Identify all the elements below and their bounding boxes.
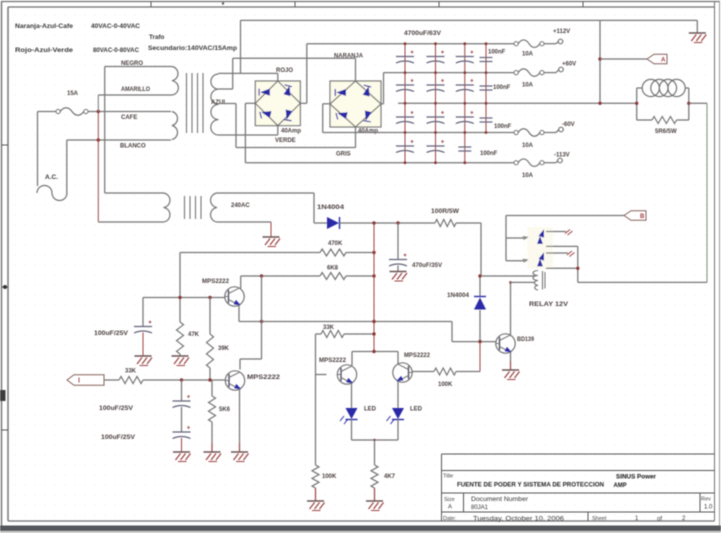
node center rail junction [598, 102, 601, 105]
svg-text:100K: 100K [322, 474, 337, 480]
svg-text:Document Number: Document Number [471, 497, 528, 503]
terminal -113V [558, 158, 563, 163]
node junction CAFE [97, 110, 100, 113]
capacitor 4700uF/63V row2 col1 [396, 84, 414, 86]
bridge rectifier BR1 40Amp [255, 81, 300, 126]
svg-text:1N4004: 1N4004 [317, 205, 345, 211]
svg-text:A: A [448, 505, 452, 511]
wire AZUL tap to GRIS line [219, 103, 237, 105]
scan smudge left edge [0, 390, 6, 401]
wire fuse to terminal -113V [544, 162, 556, 164]
wire NARANJA tap to bridge BR2 top [219, 88, 233, 90]
capacitor 4700uF/63V row3 col3 [456, 116, 474, 118]
capacitor 4700uF/63V row1 col1 [396, 56, 414, 58]
svg-text:10A: 10A [522, 143, 534, 149]
transformer T1 secondary winding [211, 74, 219, 135]
svg-text:100nF: 100nF [488, 50, 506, 56]
capacitor 4700uF/63V row1 col2 [427, 56, 445, 58]
svg-text:10A: 10A [522, 52, 534, 58]
svg-text:B: B [640, 214, 645, 220]
ground 100K [307, 500, 324, 502]
svg-text:100uF/25V: 100uF/25V [101, 435, 135, 441]
capacitor bank column wires [404, 44, 406, 163]
ground top right [696, 20, 698, 33]
svg-text:6K8: 6K8 [327, 266, 339, 272]
svg-text:MPS2222: MPS2222 [247, 375, 281, 381]
svg-text:Naranja-Azul-Cafe: Naranja-Azul-Cafe [15, 23, 74, 30]
svg-text:100uF/25V: 100uF/25V [99, 406, 133, 412]
svg-text:100uF/25V: 100uF/25V [94, 331, 128, 337]
ground caps [173, 451, 190, 453]
capacitor 100nF row3 [480, 117, 493, 119]
wire D2 cathode rail [340, 222, 436, 224]
wire 100R down to relay node [480, 223, 482, 276]
svg-text:AMP: AMP [614, 483, 627, 489]
svg-text:100nF: 100nF [494, 124, 512, 130]
wire 33K left to Q2 base [315, 334, 317, 375]
wire T2 sec bottom to ground [217, 221, 271, 223]
capacitor C5 470uF/35V [397, 223, 399, 259]
wire BR1 + output to +112V rail [300, 102, 307, 104]
svg-text:10A: 10A [522, 173, 534, 179]
wire input rail to Q5 base [143, 379, 225, 381]
terminal +60V [559, 67, 564, 72]
capacitor 4700uF/63V row3 col1 [396, 116, 414, 118]
fuse F3 10A [514, 71, 518, 75]
svg-text:LED: LED [364, 407, 377, 413]
svg-text:RELAY 12V: RELAY 12V [529, 301, 569, 308]
node A junction [598, 57, 601, 60]
svg-text:Secundario:140VAC/15Amp: Secundario:140VAC/15Amp [148, 45, 237, 52]
wire BR2 + output to +60V rail [381, 103, 384, 105]
ground T2 [263, 236, 280, 238]
wire top bus to ground [241, 19, 698, 21]
svg-text:LED: LED [410, 407, 423, 413]
svg-text:80JA1: 80JA1 [471, 505, 489, 511]
svg-text:40Amp: 40Amp [281, 129, 301, 135]
svg-text:33K: 33K [125, 369, 137, 375]
transformer T1 core [186, 73, 188, 133]
svg-text:Sheet: Sheet [592, 516, 607, 522]
wire LED bottom rail [352, 439, 399, 441]
svg-text:40Amp: 40Amp [358, 129, 378, 135]
wire relay contacts to output [577, 246, 579, 282]
bottom page edge band [0, 526, 721, 532]
svg-text:Date:: Date: [443, 516, 457, 522]
svg-text:80VAC-0-80VAC: 80VAC-0-80VAC [93, 47, 139, 54]
svg-text:100K: 100K [438, 382, 453, 388]
wire AC hot to fuse [37, 112, 39, 187]
wire NEGRO rail down to T2 [104, 67, 106, 194]
wire 470K node down to Q1 base [179, 253, 181, 323]
frame tick marks top [150, 2, 152, 8]
capacitor 4700uF/63V row2 col3 [456, 84, 474, 86]
node junction BLANCO [97, 138, 100, 141]
transformer T1 primary winding 1 (NEGRO/AMARILLO) [105, 66, 172, 68]
svg-text:100nF: 100nF [480, 151, 498, 157]
svg-text:of: of [657, 516, 662, 522]
svg-text:+112V: +112V [553, 29, 570, 35]
svg-text:470K: 470K [328, 241, 343, 247]
wire coil lead 2 [511, 281, 536, 283]
ground 5K6 [204, 451, 221, 453]
svg-text:4K7: 4K7 [384, 474, 396, 480]
wire Q1 base rail [143, 297, 225, 299]
relay K1 coil [533, 271, 538, 291]
capacitor 4700uF/63V row4 col2 [427, 145, 445, 147]
transformer T2 secondary 240AC [211, 193, 217, 222]
ground Q5 [231, 451, 248, 453]
wire L//R to right drop [689, 102, 707, 104]
wire Q1 collector to 6K8 rail [240, 276, 242, 289]
svg-text:-60V: -60V [562, 122, 575, 128]
cap bank junction dots [404, 42, 407, 45]
svg-text:A: A [661, 58, 666, 64]
svg-text:10A: 10A [522, 83, 534, 89]
svg-text:ROJO: ROJO [276, 68, 293, 74]
ground 47K [172, 355, 189, 357]
svg-text:MPS2222: MPS2222 [404, 353, 431, 359]
wire LED collector rail [351, 352, 353, 366]
capacitor 4700uF/63V row2 col2 [427, 84, 445, 86]
wire Q4 emitter to ground [510, 353, 512, 362]
wire fuse to terminal +60V [544, 72, 556, 74]
fuse F4 10A [514, 130, 518, 134]
svg-text:BLANCO: BLANCO [120, 144, 146, 150]
svg-text:Trafo: Trafo [149, 34, 165, 41]
wire bus down right side [599, 20, 601, 103]
svg-text:VERDE: VERDE [275, 138, 296, 144]
title block [442, 453, 715, 455]
ground C5 [390, 271, 407, 273]
svg-text:5R6/5W: 5R6/5W [655, 129, 677, 135]
wire vertical AMARILLO-BLANCO link [97, 95, 99, 112]
wire BR1 - output to -112V rail [245, 102, 255, 104]
svg-text:AMARILLO: AMARILLO [121, 87, 150, 93]
capacitor 100nF row2 [480, 85, 493, 87]
wire AC neutral to BLANCO [66, 140, 68, 194]
wire coil lead 1 [481, 275, 535, 277]
wire center 0V rail [398, 102, 637, 104]
wire ROJO tap to bridge BR1 top [219, 72, 278, 74]
connector tag B [624, 211, 646, 221]
transformer T2 core [184, 196, 186, 219]
svg-text:Title: Title [443, 474, 453, 480]
bridge rectifier BR2 40Amp [330, 81, 381, 127]
svg-text:+60V: +60V [562, 62, 576, 68]
svg-text:240AC: 240AC [231, 203, 250, 209]
wire rail corner to BD139 base [451, 322, 453, 342]
svg-text:15A: 15A [67, 91, 79, 97]
wire +60V rail (raw) [384, 72, 515, 74]
svg-text:Rev: Rev [701, 497, 711, 503]
frame tick marks left [2, 144, 9, 146]
svg-text:1.0: 1.0 [704, 505, 713, 511]
wire fuse to terminal -60V [544, 132, 556, 134]
wire Q4 collector to relay coil [510, 282, 512, 334]
ground 4K7 [366, 500, 383, 502]
svg-text:47K: 47K [188, 332, 200, 338]
resistor R 5R6/5W [652, 117, 677, 124]
wire VERDE tap to bridge BR1 bottom [219, 134, 278, 136]
svg-text:NEGRO: NEGRO [121, 61, 143, 67]
svg-text:5K6: 5K6 [219, 407, 231, 413]
svg-text:NARANJA: NARANJA [334, 54, 364, 60]
sheet inner frame [8, 6, 715, 8]
svg-text:FUENTE DE PODER Y SISTEMA DE P: FUENTE DE PODER Y SISTEMA DE PROTECCION [457, 482, 604, 489]
wire GRIS line to bridge BR2 bottom [236, 147, 356, 149]
svg-text:-113V: -113V [554, 153, 570, 159]
svg-text:CAFE: CAFE [121, 115, 137, 121]
wire +112V rail (raw) [307, 43, 514, 45]
svg-text:39K: 39K [218, 346, 230, 352]
svg-text:Tuesday, October 10, 2006: Tuesday, October 10, 2006 [473, 516, 565, 522]
svg-text:100R/5W: 100R/5W [431, 209, 459, 215]
svg-text:GRIS: GRIS [336, 152, 351, 158]
fuse F2 10A [514, 42, 518, 46]
inductor L1 [642, 79, 659, 96]
capacitor 4700uF/63V row4 col1 [396, 145, 414, 147]
connector tag input [67, 375, 104, 386]
svg-text:MPS2222: MPS2222 [319, 358, 347, 364]
capacitor 100nF row4 [458, 146, 471, 148]
wire T2 sec top to D2 [217, 192, 314, 194]
wire Q5 emitter to ground [239, 390, 241, 444]
svg-text:40VAC-0-40VAC: 40VAC-0-40VAC [91, 23, 140, 30]
transformer T2 primary [105, 192, 164, 194]
capacitor 4700uF/63V row3 col2 [427, 116, 445, 118]
svg-text:Size: Size [444, 497, 455, 503]
svg-text:A.C.: A.C. [45, 174, 58, 181]
wire to A tag [600, 58, 647, 60]
svg-text:SINUS Power: SINUS Power [616, 475, 657, 481]
svg-text:BD139: BD139 [517, 337, 535, 343]
ground Q4 [502, 369, 519, 371]
terminal +112V [558, 39, 563, 44]
svg-text:MPS2222: MPS2222 [202, 279, 230, 285]
svg-text:470uF/35V: 470uF/35V [412, 263, 442, 269]
wire fuse to terminal +112V [544, 43, 556, 45]
wire center vertical node [373, 223, 375, 352]
sheet outer border [1, 1, 720, 3]
transformer T1 primary winding 2 (CAFE/BLANCO) [172, 112, 178, 140]
ground C base [135, 355, 152, 357]
relay K1 contacts [527, 227, 553, 269]
fuse F5 10A [514, 161, 518, 165]
wire Q1 emitter to protection rail [238, 306, 240, 322]
terminal -60V [559, 127, 564, 132]
wire -60V rail (raw) [323, 132, 514, 134]
wire -112V rail (raw) [245, 162, 514, 164]
svg-text:1N4004: 1N4004 [447, 293, 470, 299]
svg-text:100nF: 100nF [493, 85, 511, 91]
capacitor 100nF row1 [480, 57, 493, 59]
svg-text:Rojo-Azul-Verde: Rojo-Azul-Verde [15, 47, 74, 54]
wire 6K8 node down to Q5 collector [261, 276, 263, 359]
wire BR2 - output to -60V rail [323, 103, 330, 105]
connector tag A [647, 54, 667, 64]
svg-text:4700uF/63V: 4700uF/63V [404, 31, 441, 37]
capacitor 4700uF/63V row1 col3 [456, 56, 474, 58]
svg-text:33K: 33K [323, 325, 335, 331]
wire protection sense rail [239, 321, 452, 323]
wire fuse to CAFE (transformer) [88, 111, 171, 113]
